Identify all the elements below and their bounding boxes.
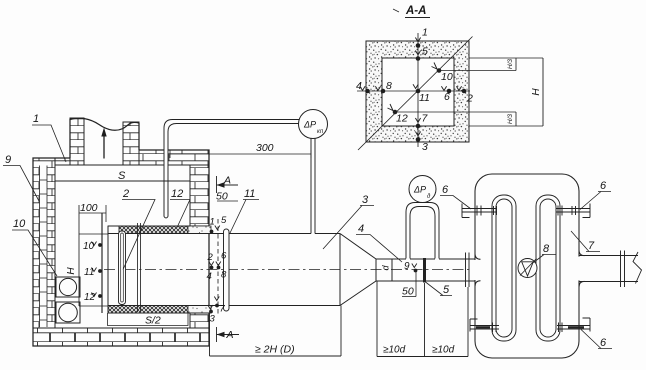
pressure gauge dP1: [299, 110, 328, 234]
dimension 2H D: [210, 306, 342, 357]
section point 6: [441, 86, 451, 103]
H3 line at point 12: [395, 111, 516, 113]
section vertical centerline: [417, 33, 419, 147]
burner port upper: [56, 277, 80, 297]
svg-text:11: 11: [84, 267, 94, 278]
svg-text:12: 12: [84, 292, 96, 303]
svg-text:1: 1: [33, 113, 39, 125]
svg-text:4: 4: [207, 271, 212, 282]
section outer wall stippled: [366, 41, 469, 142]
svg-text:50: 50: [216, 191, 228, 203]
section point 11: [413, 84, 430, 104]
svg-text:H/3: H/3: [507, 114, 514, 125]
probe 2 in duct: [119, 231, 126, 305]
section point 7: [415, 113, 428, 129]
clamp top left: [462, 204, 497, 218]
wall penetration stipple bottom: [188, 306, 211, 314]
svg-text:A-A: A-A: [405, 5, 426, 17]
centerline: [104, 269, 473, 271]
svg-text:≥10d: ≥10d: [383, 345, 406, 356]
svg-text:5: 5: [221, 215, 227, 226]
section point 4: [356, 80, 370, 93]
svg-text:10: 10: [83, 241, 95, 252]
label 6 top right: [580, 180, 611, 210]
section point 3: [415, 132, 428, 154]
svg-text:8: 8: [543, 243, 550, 255]
label 6 top left: [440, 184, 471, 209]
furnace right wall lower: [190, 313, 209, 346]
svg-text:кп: кп: [317, 129, 324, 135]
svg-text:6: 6: [444, 91, 450, 103]
svg-text:3: 3: [362, 194, 369, 206]
dimension 10d cells: [377, 281, 468, 357]
svg-text:8: 8: [386, 80, 392, 92]
furnace brick wall left: [33, 158, 70, 328]
chimney left column: [70, 118, 84, 165]
measuring line in chamber with points 10 11 12: [83, 213, 102, 313]
svg-text:8: 8: [221, 270, 227, 281]
svg-text:3: 3: [210, 314, 216, 325]
label 6 bottom right: [581, 330, 612, 350]
svg-text:4: 4: [358, 223, 364, 235]
label 5: [426, 282, 453, 296]
label 10: [12, 218, 57, 276]
duct bottom line: [108, 306, 340, 314]
svg-text:H: H: [66, 267, 77, 275]
probe at S/2 plane: [138, 223, 141, 312]
section point 2: [456, 86, 473, 104]
svg-text:12: 12: [396, 113, 408, 125]
svg-text:1: 1: [422, 27, 428, 39]
svg-text:11: 11: [419, 92, 430, 104]
svg-text:5: 5: [422, 46, 428, 58]
sensor tube hanging in chamber: [164, 120, 300, 219]
svg-text:ΔP: ΔP: [303, 120, 316, 130]
flue up arrow: [101, 128, 106, 159]
chimney right column: [123, 122, 139, 165]
outlet break: [633, 252, 642, 284]
svg-text:10: 10: [441, 71, 453, 83]
section horizontal centerline: [357, 90, 470, 92]
label 2: [122, 188, 155, 270]
chimney flue inner walls: [84, 121, 123, 165]
duct entrance edge: [107, 226, 109, 313]
svg-text:ΔP: ΔP: [413, 185, 426, 195]
duct top line: [108, 226, 340, 234]
section point 12: [388, 104, 408, 125]
furnace top brick band right of chimney: [139, 150, 209, 165]
label 7: [571, 231, 600, 252]
H3 ticks and labels: [507, 58, 516, 126]
dimension 100: [79, 202, 106, 222]
pressure gauge dP2: [409, 176, 436, 203]
svg-text:4: 4: [356, 80, 362, 92]
plane point top 1 5: [210, 215, 228, 233]
svg-text:2: 2: [466, 93, 473, 105]
svg-text:H: H: [531, 88, 542, 96]
clamp top right: [556, 204, 590, 218]
label 8: [534, 243, 557, 263]
furnace right wall upper: [190, 165, 209, 226]
S line: [55, 180, 190, 182]
svg-text:100: 100: [80, 202, 98, 214]
label 1: [32, 113, 66, 162]
wall penetration stipple top: [188, 226, 211, 234]
svg-text:300: 300: [256, 142, 274, 154]
burner port lower: [56, 302, 80, 323]
svg-text:7: 7: [220, 304, 226, 315]
gauge dP2 stand: [406, 203, 439, 259]
sampling plane dashed: [217, 219, 219, 314]
svg-text:2: 2: [122, 188, 129, 200]
inner loop right: [536, 195, 560, 341]
svg-text:≥10d: ≥10d: [432, 345, 455, 356]
chimney break wave: [70, 118, 139, 130]
dimension 50 right: [402, 286, 416, 298]
svg-text:A: A: [226, 329, 234, 341]
svg-text:5: 5: [443, 284, 450, 296]
label 11: [230, 188, 259, 233]
H3 line at point 10: [439, 70, 516, 72]
svg-text:6: 6: [221, 251, 227, 262]
label 3 duct: [323, 194, 374, 249]
outlet flange: [621, 251, 625, 288]
section diagonal: [358, 37, 473, 151]
svg-text:11: 11: [244, 188, 255, 200]
svg-text:3: 3: [422, 141, 428, 153]
inner loop left: [492, 195, 516, 341]
point 9: [404, 261, 417, 297]
svg-text:9: 9: [404, 261, 410, 272]
small duct top segments: [410, 258, 475, 260]
svg-text:A: A: [223, 175, 231, 187]
small duct with d box: [376, 259, 475, 281]
clamp bottom left: [470, 319, 499, 332]
wall lining strip 9: [40, 166, 48, 328]
svg-text:S: S: [118, 170, 126, 182]
section marker A bottom: [217, 327, 240, 342]
measurement plane 5 thick: [423, 258, 426, 283]
section marker A top: [217, 175, 239, 194]
svg-text:7: 7: [588, 240, 595, 252]
device wall openings at ports: [473, 260, 477, 280]
svg-text:≥ 2H (D): ≥ 2H (D): [255, 344, 295, 356]
furnace chamber ceiling line: [55, 165, 190, 328]
H bracket: [531, 58, 543, 126]
label 4: [356, 223, 402, 262]
section A-A title: [393, 5, 430, 18]
section point 5: [415, 46, 428, 61]
svg-text:9: 9: [5, 154, 11, 166]
svg-text:H/3: H/3: [507, 59, 514, 70]
cone reducer: [340, 234, 376, 306]
svg-text:6: 6: [600, 180, 607, 192]
probe 11 in duct: [224, 229, 230, 311]
H extension lines: [469, 58, 543, 126]
plane points bottom 7 3: [208, 297, 226, 325]
duct upper lining crosshatch: [119, 226, 190, 234]
label 9: [3, 154, 39, 201]
furnace outer outline: [33, 119, 209, 346]
section point 8: [375, 80, 392, 93]
dimension 300: [170, 142, 311, 158]
inlet flange: [466, 253, 470, 288]
label 12: [170, 188, 190, 228]
svg-text:2: 2: [207, 252, 214, 263]
svg-text:12: 12: [171, 188, 183, 200]
svg-text:6: 6: [442, 184, 449, 196]
duct lower lining crosshatch: [108, 306, 190, 314]
svg-text:50: 50: [402, 286, 414, 298]
port fillets: [475, 250, 585, 287]
section point 1: [415, 27, 427, 48]
svg-text:10: 10: [13, 218, 26, 230]
pump 8: [518, 259, 537, 278]
dimension 50 top: [216, 191, 238, 203]
apparatus body 7: [475, 174, 579, 358]
S/2 dimension box: [108, 313, 189, 327]
furnace floor bricks: [33, 328, 209, 346]
H height box at duct mouth: [79, 205, 108, 306]
section point 10: [432, 63, 453, 84]
section inner opening: [382, 58, 454, 126]
svg-text:6: 6: [600, 337, 607, 349]
svg-text:1: 1: [210, 217, 215, 228]
outlet pipe: [579, 256, 638, 282]
clamp bottom right: [557, 318, 590, 332]
svg-text:S/2: S/2: [145, 315, 161, 327]
plane points middle 2 6 4 8: [207, 251, 228, 283]
